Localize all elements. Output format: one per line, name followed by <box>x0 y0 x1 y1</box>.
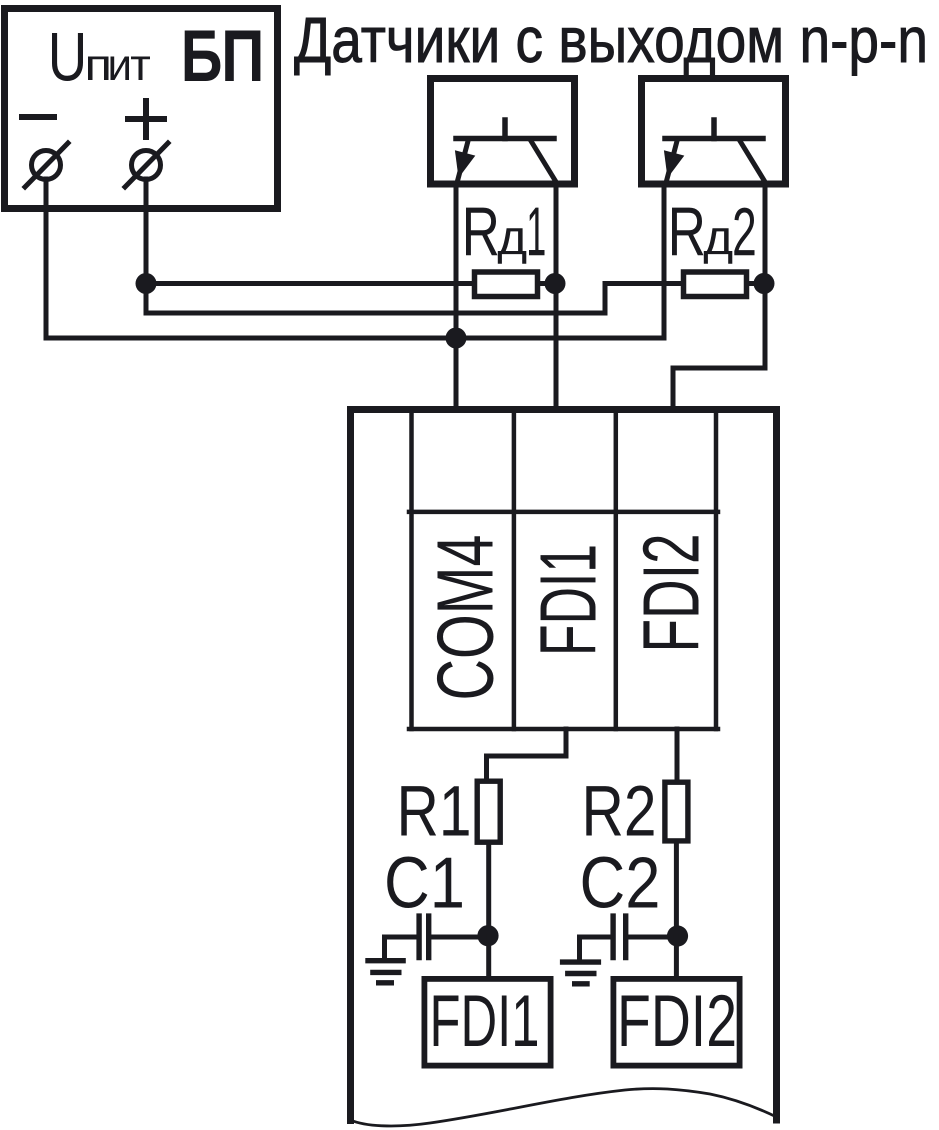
capacitor C2 <box>613 913 626 960</box>
ground 1 <box>365 961 406 983</box>
svg-text:COM4: COM4 <box>421 535 510 701</box>
minus polarity mark <box>22 114 54 120</box>
resistor R1 <box>477 781 500 842</box>
resistor Rд1 <box>475 272 538 297</box>
wire FDI1 terminal to R1 <box>487 729 567 779</box>
svg-text:FDI1: FDI1 <box>430 981 540 1062</box>
device bottom torn edge <box>351 1089 777 1126</box>
FDI1 input box <box>424 979 550 1066</box>
wire minus bus <box>46 179 664 338</box>
junction plus bus <box>136 273 157 294</box>
wire FDI2 terminal to R2 <box>675 729 680 780</box>
svg-text:C1: C1 <box>384 844 465 924</box>
wire C2 to ground 2 <box>580 937 611 960</box>
sensor 2 box <box>642 79 786 185</box>
plus polarity mark <box>128 101 164 137</box>
sensor 1 box <box>431 79 575 185</box>
node 2 junction <box>667 925 688 946</box>
wire C2 to node 2 <box>628 935 676 940</box>
label Rд1 <box>466 208 545 264</box>
device box outline <box>351 410 777 1121</box>
FDI2 input box <box>613 979 739 1066</box>
terminal block grid <box>409 409 718 729</box>
transistor VT2 <box>664 120 766 184</box>
wire plus to Rд2 <box>146 284 681 314</box>
wire plus to Rд1 <box>146 281 472 286</box>
wire Rд1 to collector 1 <box>538 281 557 286</box>
wire C1 to node 1 <box>431 935 489 940</box>
svg-text:FDI1: FDI1 <box>524 544 613 656</box>
wire collector 2 to FDI2 terminal <box>673 183 765 409</box>
wire node 2 to FDI2 input <box>674 936 679 977</box>
wire plus lead <box>144 179 149 284</box>
wire node 1 to FDI1 input <box>486 936 491 977</box>
wire R2 to node 2 <box>674 844 679 937</box>
svg-text:C2: C2 <box>580 844 661 924</box>
power supply box БП <box>5 9 278 209</box>
junction Rд2 / collector 2 <box>754 273 775 294</box>
svg-text:R1: R1 <box>397 773 472 852</box>
wire C1 to ground 1 <box>385 937 417 960</box>
capacitor C1 <box>419 913 429 960</box>
wire emitter 1 to COM4 <box>454 183 459 409</box>
label Rд2 <box>672 208 755 264</box>
terminal circle plus <box>125 143 168 187</box>
resistor Rд2 <box>684 272 747 297</box>
transistor VT1 <box>455 120 557 184</box>
node 1 junction <box>477 925 498 946</box>
wire R1 to node 1 <box>486 845 491 936</box>
wire collector 1 to FDI1 terminal <box>554 183 559 409</box>
junction Rд1 / collector 1 <box>545 273 566 294</box>
wire Rд2 to collector 2 <box>747 281 766 286</box>
ground 2 <box>560 962 601 984</box>
svg-text:FDI2: FDI2 <box>617 981 737 1062</box>
svg-text:Датчики с выходом n-p-n: Датчики с выходом n-p-n <box>294 4 928 76</box>
label Uпит <box>52 33 150 81</box>
svg-text:FDI2: FDI2 <box>627 534 716 653</box>
junction minus bus / emitter 1 <box>446 328 467 349</box>
svg-text:R2: R2 <box>582 773 657 852</box>
resistor R2 <box>665 782 688 841</box>
label БП <box>185 31 261 82</box>
terminal circle minus <box>25 143 68 187</box>
